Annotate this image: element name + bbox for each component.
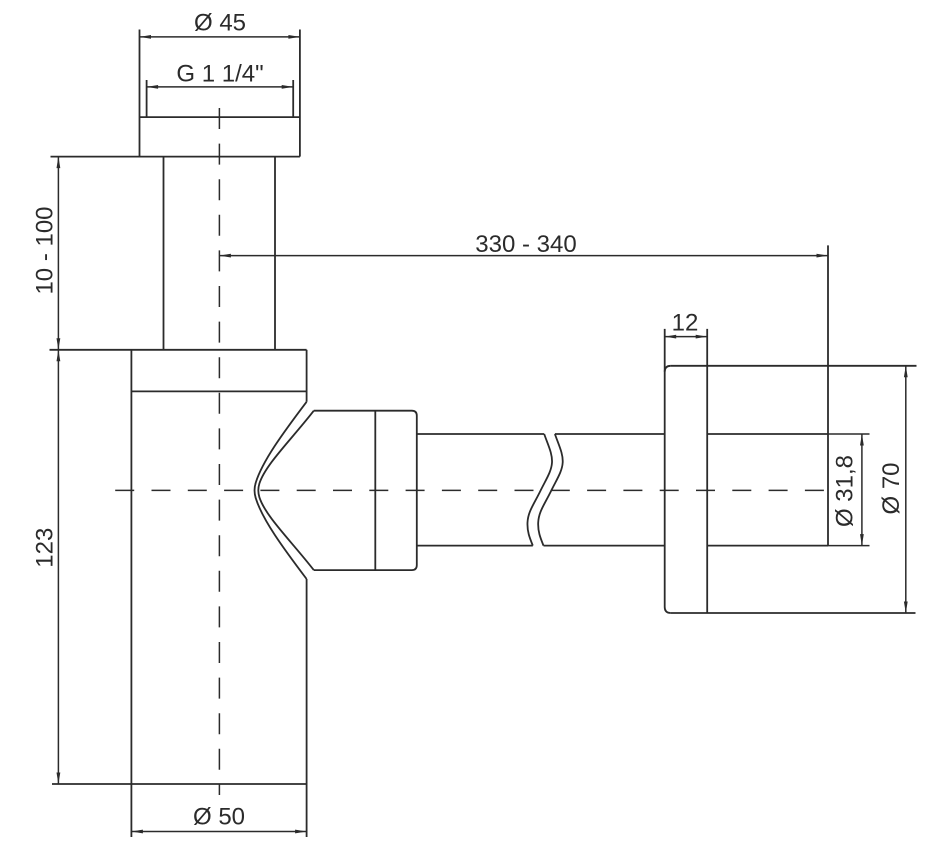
arrowheads dim 123	[57, 350, 61, 362]
arrowheads dim Ø70	[904, 366, 908, 378]
G thread extension lines	[147, 80, 294, 117]
arrowhead dim 330-340 right	[817, 254, 829, 258]
trap body cylinder	[50, 350, 307, 837]
outlet nut divider line	[374, 411, 376, 570]
arrowhead dim 330-340 left	[219, 254, 231, 258]
dimension 12 line	[665, 336, 708, 338]
arrowheads dim Ø31,8	[860, 434, 864, 446]
svg-text:Ø 50: Ø 50	[193, 804, 245, 831]
pipe end / wall plane extension line	[827, 245, 829, 545]
svg-text:Ø 45: Ø 45	[194, 10, 246, 37]
dimension Ø31,8 line	[861, 434, 863, 546]
dimension 10-100 line	[57, 157, 59, 350]
arrowheads dim 12	[665, 335, 677, 339]
svg-text:123: 123	[31, 528, 58, 568]
dimension Ø70 line	[905, 366, 907, 613]
outlet pipe segments	[417, 434, 828, 546]
centerline vertical (inlet axis)	[218, 108, 220, 795]
pipe break squiggle left	[527, 434, 552, 546]
arrowheads dim G 1 1/4	[147, 85, 159, 89]
svg-text:12: 12	[672, 310, 699, 337]
arrowheads dim Ø50	[131, 830, 143, 834]
dimension Ø45 line	[140, 36, 300, 38]
dimension 123 line	[57, 350, 59, 784]
dimension 330-340 line	[219, 255, 828, 257]
outlet cone nut inner curve	[258, 411, 314, 570]
pipe break squiggle right	[538, 434, 563, 546]
dimension Ø50 line	[131, 831, 306, 833]
outlet nut body (rounded right side)	[314, 411, 417, 570]
dimension Ø31,8 extension lines	[828, 433, 870, 435]
outlet cone nut outer curve	[255, 402, 307, 579]
svg-text:330 - 340: 330 - 340	[475, 231, 576, 258]
svg-text:G 1 1/4": G 1 1/4"	[176, 61, 263, 88]
svg-text:Ø 70: Ø 70	[878, 462, 905, 514]
top cap (G 1 1/4" nut) outline	[51, 30, 300, 157]
inlet pipe (vertical tube)	[164, 157, 276, 350]
svg-text:10 - 100: 10 - 100	[32, 206, 59, 294]
svg-text:Ø 31,8: Ø 31,8	[831, 455, 858, 527]
arrowheads dim Ø45	[140, 35, 152, 39]
dimension G 1 1/4" line	[147, 86, 294, 88]
centerline horizontal (outlet axis)	[115, 489, 827, 491]
wall flange	[665, 329, 917, 613]
arrowheads dim 10-100	[57, 157, 61, 169]
